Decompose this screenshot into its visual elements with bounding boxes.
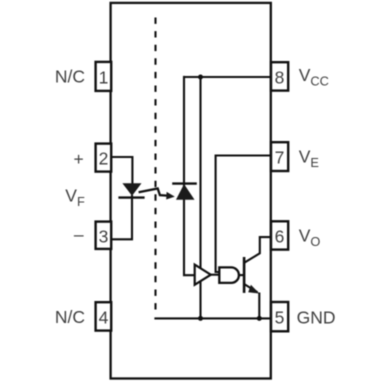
pin 5 box (271, 302, 288, 331)
svg-text:N/C: N/C (55, 66, 85, 86)
svg-text:1: 1 (99, 67, 109, 87)
photodiode D2 (172, 184, 197, 200)
node junction on VCC rail (198, 75, 203, 80)
pin 6 box (271, 221, 288, 249)
pin 3 box (96, 222, 112, 249)
transistor Q1 base bar (243, 257, 246, 293)
svg-text:5: 5 (275, 308, 285, 328)
svg-text:+: + (73, 149, 83, 169)
wire amp output to gate (211, 274, 220, 276)
svg-text:8: 8 (275, 67, 285, 87)
svg-text:N/C: N/C (55, 307, 85, 327)
svg-text:3: 3 (99, 226, 109, 246)
pin 7 box (271, 142, 288, 171)
pin 8 box (271, 62, 288, 90)
light arrow from LED to photodiode (139, 189, 175, 200)
transistor Q1 collector wire to pin6 (244, 237, 271, 263)
pin 4 box (96, 302, 112, 330)
pin 1 box (96, 62, 112, 91)
node junction emitter-GND (257, 316, 262, 321)
VCC rail wire to pin 8 (184, 76, 271, 78)
internal shield (dashed line) (154, 18, 156, 317)
svg-text:7: 7 (275, 148, 285, 168)
GND rail wire to pin5 (154, 317, 271, 319)
wire amp GND supply (199, 281, 201, 318)
amplifier A1 (195, 265, 211, 285)
svg-text:4: 4 (99, 307, 109, 327)
LED D1 (emitter diode) (118, 184, 144, 198)
svg-text:VF: VF (65, 185, 85, 209)
AND gate G1 (219, 267, 239, 283)
svg-text:VCC: VCC (299, 65, 329, 89)
transistor Q1 emitter wire with arrow (244, 284, 259, 318)
wire amp VCC supply (199, 77, 201, 268)
wire gate output to transistor base (239, 274, 244, 276)
svg-text:2: 2 (99, 149, 109, 169)
IC body outline U1 (111, 3, 271, 379)
svg-text:–: – (74, 224, 84, 244)
pin 2 box (96, 144, 112, 172)
svg-text:VE: VE (299, 146, 319, 170)
wire photodiode branch (VCC to amp input) (184, 76, 195, 275)
node junction amp-GND (198, 316, 203, 321)
wire LED cathode to pin3 (111, 195, 132, 239)
wire pin7 VE to gate enable input (216, 156, 271, 273)
svg-text:GND: GND (297, 307, 336, 327)
wire pin2 to LED anode (111, 157, 132, 184)
svg-text:6: 6 (275, 227, 285, 247)
svg-text:VO: VO (299, 225, 321, 249)
